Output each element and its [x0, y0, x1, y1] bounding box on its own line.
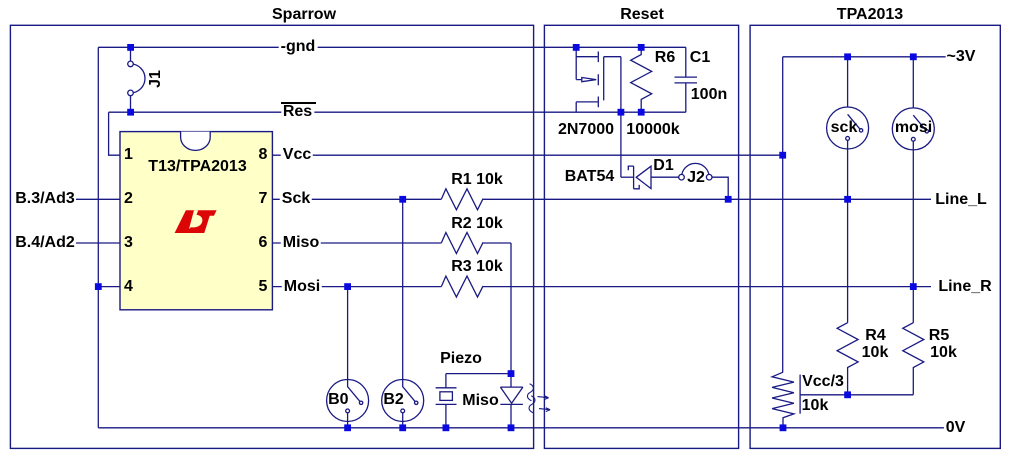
wire Res to pin1 [109, 112, 120, 155]
Sparrow box [10, 25, 533, 448]
label J2 [687, 170, 705, 186]
LT logo [175, 210, 218, 233]
label D1 [653, 158, 673, 174]
wire ~3V rail [783, 56, 946, 58]
resistor R2 [441, 233, 483, 254]
IC pin 7 [259, 191, 268, 207]
pin label Mosi [282, 279, 322, 295]
wire Res rail [109, 111, 686, 113]
label mosi [895, 120, 932, 136]
transistor Q1 2N7000 [576, 47, 621, 112]
net label Res overline [281, 102, 316, 104]
label R4 [865, 328, 885, 344]
wire Miso row [272, 242, 511, 244]
wire gate drop to D1 [620, 57, 622, 178]
wire B0 riser [347, 287, 349, 387]
sound wave arrows [527, 384, 550, 413]
IC pin 2 [124, 191, 133, 207]
label 10k (R4) [862, 345, 889, 361]
IC pin 5 [259, 279, 268, 295]
label 100n [691, 87, 727, 103]
title TPA2013 [837, 7, 903, 23]
wire Sck row [272, 198, 931, 200]
label R3 10k [451, 259, 503, 275]
resistor R3 [441, 276, 483, 297]
IC pin 6 [259, 235, 268, 251]
IC name T13/TPA2013 [148, 159, 246, 175]
label R2 10k [451, 216, 503, 232]
junction nodes [95, 44, 917, 431]
pin label Sck [280, 191, 312, 207]
wire Vcc row [272, 154, 782, 156]
button B2 [382, 380, 424, 428]
button sck [827, 107, 869, 149]
label sck [831, 120, 858, 136]
capacitor C1 [675, 47, 698, 112]
resistor R5 [903, 323, 924, 395]
net label B.3/Ad3 [15, 191, 75, 207]
label R6 [655, 50, 675, 66]
jumper J1 [128, 47, 145, 112]
label 10000k [626, 122, 679, 138]
wire 0V rail [98, 427, 944, 429]
label J1 [148, 70, 164, 88]
pin label Miso [281, 235, 321, 251]
net label ~3V [947, 49, 976, 65]
net label Line_L [935, 192, 987, 208]
label B2 [383, 392, 403, 408]
net label -gnd [279, 39, 318, 55]
diode D1 BAT54 [621, 166, 679, 189]
net label Line_R [938, 279, 991, 295]
resistor R4 [837, 323, 858, 395]
jumper J2 [679, 163, 729, 199]
wire B.4/Ad2 to pin3 [76, 242, 120, 244]
resistor Vcc/3 10k [772, 372, 794, 428]
wire Mosi row [272, 286, 931, 288]
wire Vcc/3 tap bar [799, 375, 801, 414]
resistor R1 [441, 189, 483, 210]
wire B2 riser [402, 199, 404, 386]
resistor R6 [631, 47, 652, 112]
IC pin 3 [124, 235, 133, 251]
button mosi [892, 108, 934, 150]
net label 0V [946, 420, 966, 436]
wire piezo top rail [446, 373, 511, 375]
label 2N7000 [558, 122, 614, 138]
wire pin4 stub [98, 286, 120, 288]
wire sck button riser [847, 57, 849, 115]
wire Vcc riser TPA [782, 57, 784, 372]
pin label Vcc [281, 147, 313, 163]
wire Miso feed down to LED [510, 243, 512, 374]
TPA2013 box [750, 25, 1000, 448]
label R5 [929, 328, 949, 344]
wire Vcc/3 rail [800, 394, 913, 396]
label Miso (LED) [462, 393, 498, 409]
wire B.3/Ad3 to pin2 [76, 198, 120, 200]
label BAT54 [565, 169, 615, 185]
piezo element [436, 374, 457, 428]
wire mosi to Line_R [912, 141, 914, 323]
wire sck to R4 [847, 140, 849, 322]
net label Res [281, 104, 314, 120]
label C1 [690, 50, 710, 66]
label Vcc/3 [802, 374, 844, 390]
label Piezo [440, 351, 482, 367]
IC pin 8 [259, 147, 268, 163]
label 10k (R5) [930, 345, 957, 361]
wire -gnd rail [98, 46, 686, 48]
label R1 10k [451, 172, 503, 188]
IC U1 T13/TPA2013 body [120, 132, 272, 310]
Reset box [544, 25, 738, 448]
IC pin 1 [124, 147, 133, 163]
LED Miso [500, 374, 523, 428]
label B0 [328, 392, 348, 408]
button B0 [327, 380, 369, 428]
label 10k (Vcc/3) [802, 398, 829, 414]
title Sparrow [272, 7, 336, 23]
wire mosi button riser [912, 57, 914, 115]
title Reset [620, 7, 664, 23]
wire left riser [97, 47, 99, 428]
IC pin 4 [124, 279, 133, 295]
net label B.4/Ad2 [15, 235, 75, 251]
